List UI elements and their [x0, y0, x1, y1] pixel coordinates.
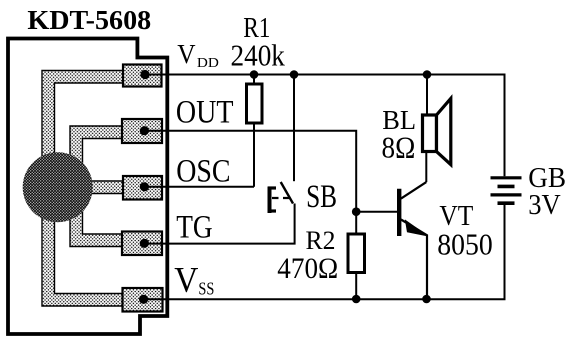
junction node R2-rail: [352, 295, 361, 304]
wire OSC to R1 bottom: [144, 186, 254, 188]
junction node SB-VDD: [290, 70, 299, 79]
svg-text:SB: SB: [306, 179, 337, 215]
svg-text:SS: SS: [198, 279, 214, 299]
trace OSC (pin 3): [85, 181, 123, 194]
pad VSS: [123, 288, 163, 312]
transistor VT 8050: [399, 152, 427, 300]
pad VDD: [123, 65, 162, 87]
svg-text:V: V: [177, 39, 196, 69]
trace VSS (pin 5): [42, 215, 123, 306]
svg-text:470Ω: 470Ω: [277, 252, 338, 285]
wire OUT to transistor base node: [144, 131, 356, 212]
junction node R1-VDD: [250, 70, 259, 79]
trace OUT (pin 2): [70, 126, 122, 165]
wire bottom rail VSS pad to battery bottom: [144, 203, 505, 299]
svg-text:KDT-5608: KDT-5608: [27, 5, 151, 35]
svg-text:OSC: OSC: [176, 154, 230, 190]
svg-text:OUT: OUT: [176, 95, 234, 131]
speaker BL 8ohm: [423, 75, 451, 165]
IC die blob: [23, 152, 93, 222]
trace VDD (pin 1): [42, 71, 123, 161]
IC KDT-5608 package outline: [8, 39, 167, 335]
wire SB bottom to TG pad: [144, 204, 294, 244]
svg-text:TG: TG: [176, 210, 212, 246]
trace TG (pin 4): [70, 212, 122, 247]
wire VDD rail pad1 to battery top: [145, 75, 505, 177]
pad OSC: [123, 176, 162, 200]
svg-text:3V: 3V: [528, 189, 561, 221]
junction node BL-VDD: [423, 70, 432, 79]
svg-text:R2: R2: [306, 226, 336, 255]
svg-text:8050: 8050: [437, 227, 493, 262]
svg-text:8Ω: 8Ω: [382, 130, 416, 165]
svg-text:240k: 240k: [231, 39, 286, 73]
wire base node to VT base: [356, 211, 397, 213]
junction node base: [352, 207, 361, 216]
resistor R1 240k: [247, 75, 263, 187]
resistor R2 470ohm: [348, 212, 365, 299]
pad OUT: [122, 119, 162, 143]
battery GB 3V: [491, 178, 522, 203]
junction node emitter-rail: [422, 295, 431, 304]
switch SB (push button): [268, 75, 294, 214]
pad TG: [122, 232, 162, 256]
svg-text:V: V: [174, 260, 198, 300]
svg-text:DD: DD: [197, 56, 219, 71]
